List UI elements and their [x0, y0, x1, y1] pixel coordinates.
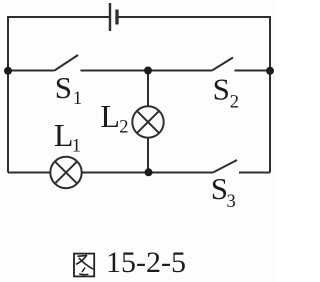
svg-text:S: S [55, 70, 72, 105]
svg-text:S: S [213, 72, 230, 107]
svg-text:L: L [100, 98, 120, 134]
switch S1 blade [55, 55, 79, 71]
wire right vertical [269, 16, 271, 173]
svg-text:S: S [211, 171, 228, 206]
lamp L2 circle [132, 106, 163, 137]
lamp L1 circle [50, 157, 81, 188]
wire bottom-left to L1 [8, 172, 50, 174]
svg-text:3: 3 [227, 192, 236, 212]
node left (middle wire / left wire junction) [4, 67, 12, 75]
battery short plate (-) [115, 10, 118, 25]
svg-text:2: 2 [230, 92, 239, 112]
switch S2 blade [212, 58, 233, 71]
svg-text:L: L [54, 117, 74, 153]
wire L1 to S3 (through node) [82, 172, 213, 174]
svg-text:2: 2 [119, 118, 128, 138]
switch S3 blade [213, 160, 237, 173]
battery long plate (+) [109, 3, 111, 31]
node L2 bottom (bottom wire / branch junction) [145, 168, 153, 176]
wire L2 branch lower [147, 138, 149, 173]
wire S2 to right node [235, 70, 271, 72]
wire S3 to bottom-right corner [239, 172, 270, 174]
wire top-left (battery left lead) [8, 16, 109, 18]
wire left vertical [7, 16, 9, 173]
lamp L1 cross [55, 161, 77, 183]
caption hanzi 图 [74, 254, 94, 277]
wire top-right (battery right lead) [117, 16, 270, 18]
node right (middle wire / right wire junction) [266, 67, 274, 75]
wire middle-left to S1 [8, 70, 55, 72]
svg-text:1: 1 [73, 89, 82, 109]
svg-text:1: 1 [72, 137, 81, 157]
node L2 top (middle wire / branch junction) [144, 67, 152, 75]
wire L2 branch upper [147, 71, 149, 107]
lamp L2 cross [137, 111, 159, 133]
svg-text:15-2-5: 15-2-5 [106, 246, 186, 279]
wire S1 to S2 (through node) [81, 70, 213, 72]
